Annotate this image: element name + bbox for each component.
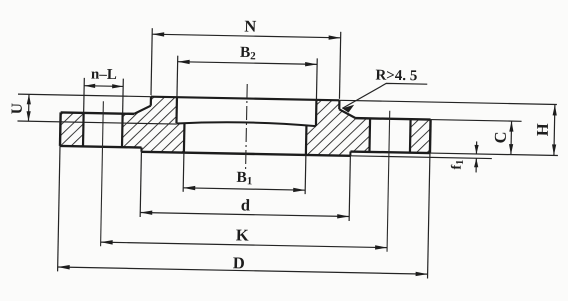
B1 arrows: [183, 186, 305, 193]
bolt hole left: left wall: [82, 113, 85, 146]
svg-text:N: N: [244, 16, 256, 35]
B2 dimension line: [178, 62, 317, 65]
socket bottom (slightly bowed scan line): [176, 121, 316, 126]
B2 arrows: [178, 59, 318, 66]
hub top face: [151, 97, 339, 101]
N witness left: [151, 28, 152, 95]
svg-text:C: C: [491, 131, 510, 143]
svg-text:K: K: [236, 225, 249, 244]
fillet hub left: [134, 105, 151, 114]
flange axis centerline: [246, 84, 248, 172]
n-L dimension line: [84, 85, 123, 88]
d arrows: [140, 210, 349, 218]
flange bottom extension for H C f1: [430, 153, 558, 155]
D witness right: [428, 153, 430, 278]
bore lower wall right B1: [305, 126, 308, 155]
B2 witness right: [315, 58, 318, 99]
flange top extension for C: [431, 120, 522, 122]
N witness right: [339, 32, 340, 99]
K arrows: [101, 240, 388, 250]
socket bore left wall B2: [175, 97, 178, 123]
raised face bottom: [141, 152, 350, 156]
svg-text:H: H: [533, 123, 552, 136]
B2 witness left: [176, 56, 179, 97]
d witness left: [140, 152, 141, 217]
D dimension line: [58, 267, 428, 274]
R leader line: [342, 83, 427, 110]
flange outline left edge: [59, 112, 62, 145]
svg-text:D: D: [233, 253, 245, 272]
d dimension line: [140, 213, 349, 217]
bolt hole right: right wall: [409, 119, 412, 152]
B1 dimension line: [183, 188, 305, 190]
raised face step right: [349, 152, 351, 156]
hub top extension line (left to U, right to H): [18, 94, 557, 104]
B1 witness right: [304, 155, 307, 194]
flange bottom face right: [350, 152, 429, 154]
H arrows: [552, 104, 557, 155]
flange section: right inner region: [306, 100, 371, 157]
socket bore right wall B2: [315, 100, 318, 126]
f1 top arrow: [475, 141, 477, 153]
n-L witness right: [122, 79, 125, 114]
flange top face left: [61, 112, 134, 113]
K dimension line: [101, 242, 387, 248]
svg-text:d: d: [241, 195, 251, 214]
H dimension line: [553, 104, 556, 155]
bolt hole left: right wall: [121, 114, 124, 147]
bolt hole right: left wall: [368, 118, 371, 151]
U dimension line: [27, 94, 30, 121]
flange right edge: [429, 120, 432, 153]
flange section: left inner region: [122, 96, 185, 152]
U arrows: [26, 94, 31, 121]
flange section: left outer cell: [60, 112, 84, 146]
N arrows: [152, 32, 341, 40]
svg-text:U: U: [9, 103, 26, 115]
B1 witness left: [182, 153, 185, 192]
svg-text:R>4. 5: R>4. 5: [375, 67, 417, 84]
D witness left: [58, 146, 60, 271]
n-L arrows: [84, 84, 123, 89]
svg-text:n–L: n–L: [91, 67, 117, 83]
d witness right: [349, 156, 350, 221]
raised face step left: [140, 148, 142, 152]
flange section: right outer cell: [410, 119, 431, 153]
bolt hole right centerline: [387, 111, 390, 252]
raised face bottom extension for f1: [350, 156, 491, 159]
hub left wall: [150, 97, 152, 106]
fillet hub right: [339, 109, 356, 118]
n-L witness left: [83, 78, 86, 113]
flange bottom face left: [60, 146, 141, 148]
C dimension line: [510, 121, 513, 154]
R leader arrowhead: [342, 105, 354, 113]
hub right wall: [338, 100, 340, 109]
D arrows: [58, 265, 428, 277]
C arrows: [509, 121, 514, 155]
bore lower wall left B1: [183, 124, 186, 153]
bolt hole left centerline: [101, 101, 104, 246]
N dimension line: [152, 34, 340, 38]
f1 bottom arrow: [475, 158, 477, 172]
flange top face right: [356, 118, 431, 119]
socket bottom extension line for U: [17, 121, 176, 124]
